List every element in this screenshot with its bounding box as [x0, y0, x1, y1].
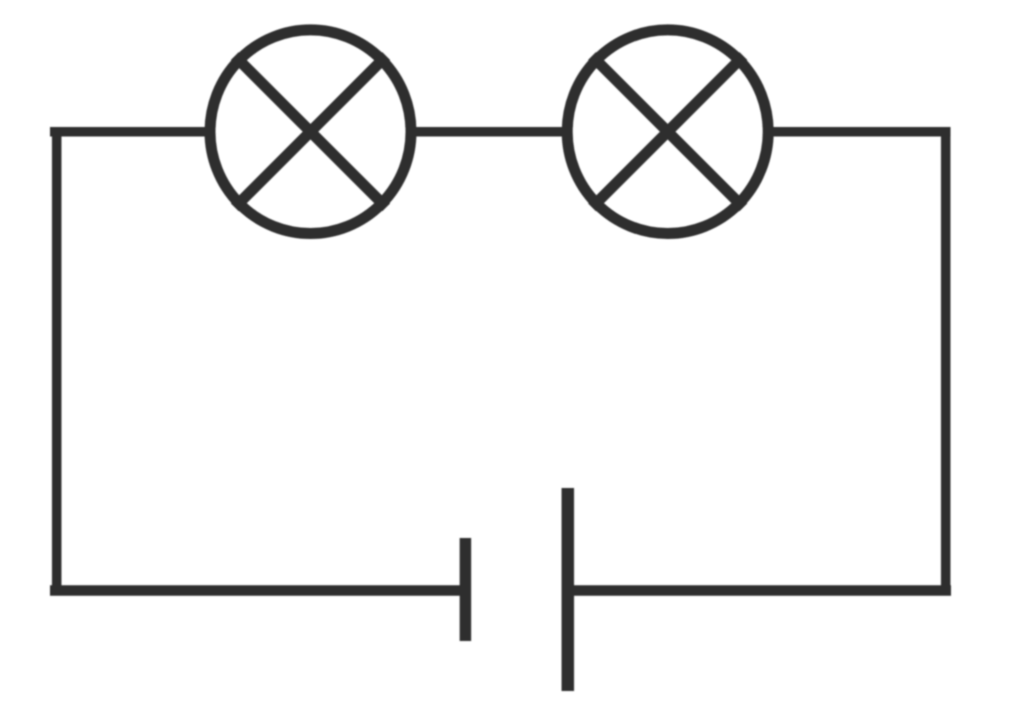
lamp L2 (circle) [567, 30, 768, 234]
lamp L2 cross stroke 1 [592, 56, 743, 207]
lamp L1 (circle) [210, 30, 411, 234]
battery cell B1 positive plate (long) [562, 488, 575, 691]
wire bottom-right segment (cell positive plate to right corner) [568, 585, 951, 596]
wire top-left segment (left corner to lamp L1) [50, 127, 210, 137]
wire right vertical segment [941, 127, 951, 595]
battery cell B1 negative plate (short) [460, 538, 472, 641]
wire top-right segment (lamp L2 to right corner) [770, 127, 951, 137]
lamp L2 cross stroke 2 [592, 56, 743, 207]
wire left vertical segment [52, 127, 62, 596]
wire top-middle segment (lamp L1 to lamp L2) [413, 127, 565, 137]
lamp L1 cross stroke 1 [235, 56, 386, 207]
wire bottom-left segment (left corner to cell negative plate) [50, 585, 466, 596]
lamp L1 cross stroke 2 [235, 56, 386, 207]
